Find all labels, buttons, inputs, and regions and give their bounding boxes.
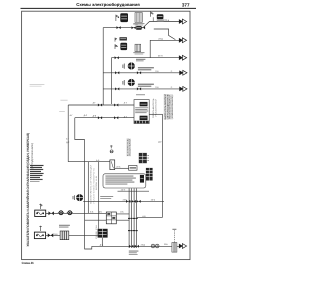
- svg-text:23-П: 23-П: [121, 189, 126, 192]
- junction bowtie row1: [117, 26, 121, 29]
- wire second to grid connector: [85, 219, 107, 221]
- svg-text:23-Б: 23-Б: [54, 233, 59, 236]
- wire B corner drop: [75, 118, 85, 140]
- arrow out bottom: [179, 244, 187, 249]
- rowB source box: [34, 232, 45, 239]
- bus vertical from row2: [110, 58, 112, 104]
- svg-text:23-П: 23-П: [158, 55, 163, 58]
- lamp connector row5: [128, 79, 135, 86]
- lower bus vertical 1: [85, 140, 92, 250]
- lamp connector row4: [128, 62, 135, 69]
- svg-text:23-Д: 23-Д: [141, 243, 146, 246]
- svg-text:23-Д: 23-Д: [158, 37, 163, 40]
- rowA bowtie: [48, 211, 53, 215]
- wire row5: [103, 88, 180, 90]
- mid small symbols: [110, 145, 113, 148]
- wire rowB into relay: [69, 235, 98, 237]
- bowties on wire A: [98, 104, 102, 107]
- svg-text:23А: 23А: [164, 243, 168, 246]
- left mid vertical wire: [98, 162, 100, 229]
- grid connector block mid: [139, 153, 147, 163]
- svg-text:(КОМБИНИРОВАННОЕ): (КОМБИНИРОВАННОЕ): [171, 95, 174, 118]
- svg-text:Д-Б: Д-Б: [100, 243, 104, 246]
- wire A into flasher box: [68, 104, 139, 106]
- rowA wire from box: [46, 212, 58, 214]
- bus vertical from row1: [102, 28, 104, 105]
- svg-text:Д-Б: Д-Б: [93, 114, 97, 117]
- harness bundle verticals: [128, 188, 130, 248]
- rowB bowtie: [48, 233, 53, 237]
- rowB text above comb: [59, 224, 70, 227]
- junction bowtie row2: [115, 56, 119, 59]
- flasher glyph bottom: [140, 116, 148, 120]
- fuse symbol right row1: [151, 12, 153, 17]
- arrow out 4: [179, 70, 187, 75]
- pin drop right row1: [152, 17, 154, 21]
- label under block right row1: [157, 19, 165, 22]
- vertical label mid column: [126, 138, 131, 156]
- flasher glyph top: [140, 102, 148, 106]
- fuse symbols row2: [115, 38, 117, 42]
- tall connector right: [146, 168, 153, 181]
- labels under bundle: [129, 250, 139, 253]
- wire riser row2 to arrow2: [150, 40, 179, 57]
- svg-text:Д-2: Д-2: [158, 140, 162, 143]
- svg-text:А-Г: А-Г: [93, 101, 97, 104]
- label strip row2: [120, 37, 127, 40]
- rowA connector pair 2: [67, 211, 73, 215]
- jog wire A to lower bus: [68, 161, 110, 163]
- label under comb row3: [136, 59, 145, 60]
- schematic frame: [22, 11, 190, 259]
- svg-text:П-Б: П-Б: [155, 70, 159, 73]
- wire A corner drop: [67, 105, 69, 162]
- bottom wire: [92, 245, 179, 247]
- grid connector X1: [106, 212, 116, 224]
- connector comb row2: [135, 44, 141, 51]
- label above flasher box: [136, 93, 145, 96]
- wire rowA to grid connector: [46, 212, 107, 214]
- header rule: [21, 7, 197, 9]
- wire below note box: [118, 190, 150, 192]
- wire fuse to junction box: [115, 167, 129, 169]
- bowtie right on wire row5: [137, 87, 141, 90]
- svg-text:23-Б: 23-Б: [165, 19, 170, 22]
- relay drop to bottom wire: [101, 238, 103, 246]
- bundle connector ticks: [128, 217, 138, 219]
- wire y201 across: [83, 200, 164, 202]
- bowtie on wire B: [98, 116, 102, 119]
- rowB wire: [46, 235, 60, 237]
- rounded note box: [103, 174, 146, 188]
- connector block row1: [120, 13, 128, 22]
- wire bundle to long vertical: [137, 216, 163, 218]
- bowties on wire y201: [126, 200, 130, 203]
- label row4 two lines: [138, 67, 154, 68]
- dashed riser from hatched connector: [173, 230, 175, 243]
- wire row1 horizontal: [103, 22, 179, 28]
- svg-text:П: П: [171, 70, 173, 73]
- lamp connector lower left: [76, 194, 83, 201]
- svg-text:23-Б: 23-Б: [116, 165, 121, 168]
- svg-text:Схема 46: Схема 46: [22, 261, 34, 265]
- svg-text:РЕЛЕ 23А: РЕЛЕ 23А: [95, 224, 98, 239]
- rowA connector pair 1: [58, 211, 64, 215]
- svg-text:А-Г: А-Г: [70, 114, 74, 117]
- wires grid to bundle: [116, 214, 129, 220]
- rowB symbol above box: [39, 226, 42, 231]
- bowtie right on wire row4: [137, 71, 141, 74]
- svg-text:П-Б: П-Б: [155, 86, 159, 89]
- svg-text:23-Б: 23-Б: [151, 199, 156, 202]
- connector block row2: [120, 43, 127, 50]
- lower bus vertical 2: [87, 162, 89, 214]
- wire step to arrow2: [154, 29, 176, 40]
- connector comb row1: [135, 13, 142, 23]
- svg-text:А-Б: А-Б: [120, 211, 124, 214]
- wire B into flasher box: [75, 117, 140, 119]
- svg-text:УКАЗАТЕЛЕЙ: УКАЗАТЕЛЕЙ: [129, 138, 132, 156]
- vertical label block right: [164, 94, 173, 120]
- pins right of grid block: [147, 155, 149, 160]
- svg-text:377: 377: [182, 2, 190, 7]
- relay block lower: [98, 229, 108, 238]
- dark block inside note box: [140, 175, 144, 183]
- svg-text:УКАЗАТЕЛИ ПОВОРОТА И АВАРИЙНАЯ: УКАЗАТЕЛИ ПОВОРОТА И АВАРИЙНАЯ СИГНАЛИЗА…: [26, 133, 30, 247]
- legend text block left: [30, 165, 44, 166]
- flasher text lines: [135, 106, 148, 109]
- text lines left of y201 wire: [100, 195, 113, 198]
- fuse rect FL: [110, 160, 115, 170]
- hatched connector bottom: [172, 243, 177, 253]
- label row5 two lines: [138, 84, 154, 85]
- rowB comb connector: [60, 231, 69, 240]
- fuse F row1: [116, 15, 118, 21]
- connector block right row1: [157, 14, 164, 19]
- svg-text:П: П: [171, 86, 173, 89]
- rowA source box: [35, 210, 46, 216]
- long right vertical: [162, 114, 164, 217]
- svg-text:А-Г: А-Г: [124, 102, 128, 105]
- faint paragraph top left: [30, 83, 45, 86]
- svg-text:БЛОК А-Б: БЛОК А-Б: [95, 175, 98, 190]
- flasher striped band: [134, 121, 148, 124]
- svg-text:ВЫКЛЮЧАТЕЛЬ СИГНАЛИЗАЦИИ: ВЫКЛЮЧАТЕЛЬ СИГНАЛИЗАЦИИ: [90, 164, 93, 204]
- stub from box to long vertical: [149, 113, 162, 115]
- inline connector pair row1: [132, 26, 136, 29]
- arrow out 1: [179, 19, 187, 24]
- faint label left mid: [59, 110, 65, 113]
- label under comb row2: [133, 51, 144, 54]
- faint label above wire A: [60, 99, 67, 102]
- wire row4: [103, 72, 180, 74]
- wire row2 horizontal: [111, 57, 179, 59]
- svg-text:23-Б: 23-Б: [123, 199, 128, 202]
- arrow out 3: [179, 55, 187, 60]
- small junction box: [129, 166, 137, 171]
- arrow out 5: [179, 87, 187, 92]
- bowtie on bottom wire: [129, 245, 133, 248]
- svg-text:А-Г: А-Г: [66, 138, 70, 141]
- svg-text:Д-2: Д-2: [66, 141, 70, 144]
- arrow out 2: [179, 38, 187, 43]
- flasher relay box U1: [134, 100, 149, 124]
- rowA lamp symbol above box: [39, 204, 42, 209]
- svg-text:Д-Л: Д-Л: [84, 114, 88, 117]
- connector circles bottom: [151, 244, 155, 248]
- svg-text:Схемы электрооборудования: Схемы электрооборудования: [76, 2, 140, 7]
